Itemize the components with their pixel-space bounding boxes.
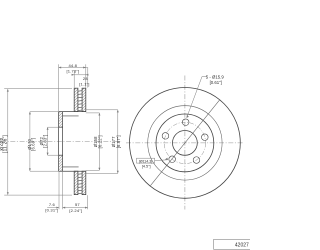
dim Ø286 extension top [4,88,72,90]
svg-text:[2.24"]: [2.24"] [69,208,82,213]
hat mounting plate [59,112,63,172]
friction ring outboard plate lower [74,171,78,194]
horizontal centerline (front) [126,142,244,144]
dim 44.8 line [59,67,88,69]
friction ring inboard plate lower [82,171,86,194]
hat plate hatch upper [59,112,63,127]
dim 28 extension right [87,67,89,88]
bolt hole upper-right [202,134,209,141]
dim 28 extension left [73,72,75,88]
center bore circle [173,131,198,156]
svg-text:[1.76"]: [1.76"] [66,69,79,74]
svg-text:42027: 42027 [235,242,249,248]
dim Ø72 extension bottom [48,154,59,156]
bolt circle label box [137,158,155,163]
svg-text:[1.1"]: [1.1"] [79,81,89,86]
hat top edge [59,111,86,113]
hat inner wall upper [63,115,79,117]
dim 7.6 extension left [58,172,60,210]
vertical centerline [184,76,186,210]
dim 7.6 leader line [47,207,59,209]
bolt hole upper-left [162,133,169,140]
bolt hole lower-right [193,157,200,164]
horizontal centerline (section) [1,140,122,142]
dim 44.8 extension left [58,64,60,111]
hat circle [156,114,214,172]
dim Ø158 line [98,113,100,170]
dimension arrowheads [7,67,119,209]
bolt hole lower-left [169,156,176,163]
dim Ø158 extension bottom [86,169,100,171]
friction inner circle [148,106,222,180]
bolt circle label leader [155,159,168,162]
svg-text:[Ø114.3]: [Ø114.3] [139,159,153,163]
svg-text:[6.22"]: [6.22"] [98,135,103,148]
dim 57 line [63,207,88,209]
dim Ø170 extension top [30,111,59,113]
svg-text:[4.5"]: [4.5"] [142,165,151,169]
dim Ø72 line [47,127,49,155]
bolt hole leader arrowhead [187,115,189,118]
svg-text:[0.61"]: [0.61"] [210,80,222,85]
svg-text:7.6: 7.6 [49,202,56,207]
vane gap rungs lower [78,174,82,194]
bolt circle label leader arrowhead [165,158,168,160]
dim Ø72 extension top [48,126,59,128]
dim Ø177 extension bottom [86,172,118,174]
bolt circle (centerline) [164,122,205,163]
svg-text:44.8: 44.8 [68,63,77,68]
dim 7.6 extension right [62,172,64,210]
bolt hole top [182,119,189,126]
dim Ø170 extension bottom [30,170,59,172]
svg-text:57: 57 [75,202,80,207]
bolt hole leader line [187,77,207,118]
hat bottom edge [59,170,86,172]
vane gap rungs upper [78,91,82,111]
hat inner wall lower [63,166,79,168]
dim Ø177 line [117,110,119,174]
friction ring outboard plate upper [74,88,78,111]
outer diameter circle [130,87,241,198]
dim 44.8 extension right [85,64,87,87]
hat plate hatch lower [59,155,63,171]
dim 28 line [72,74,88,76]
dim Ø170 line [29,112,31,171]
svg-text:[6.69"]: [6.69"] [31,138,36,151]
dim Ø286 line [7,89,9,195]
dim Ø158 extension top [86,112,100,114]
part number box [214,239,254,249]
section cut diagonal line [150,100,220,187]
svg-text:[0.31"]: [0.31"] [45,208,58,213]
svg-text:[6.97"]: [6.97"] [116,135,121,148]
dim Ø177 extension top [86,109,118,111]
svg-text:5 - Ø15.9: 5 - Ø15.9 [206,75,225,80]
svg-text:[2.83"]: [2.83"] [42,135,47,148]
svg-text:[11.26"]: [11.26"] [3,134,9,153]
friction ring inboard plate upper [82,88,86,111]
dim 57 extension right [87,195,89,209]
dim Ø286 extension bottom [4,194,72,196]
